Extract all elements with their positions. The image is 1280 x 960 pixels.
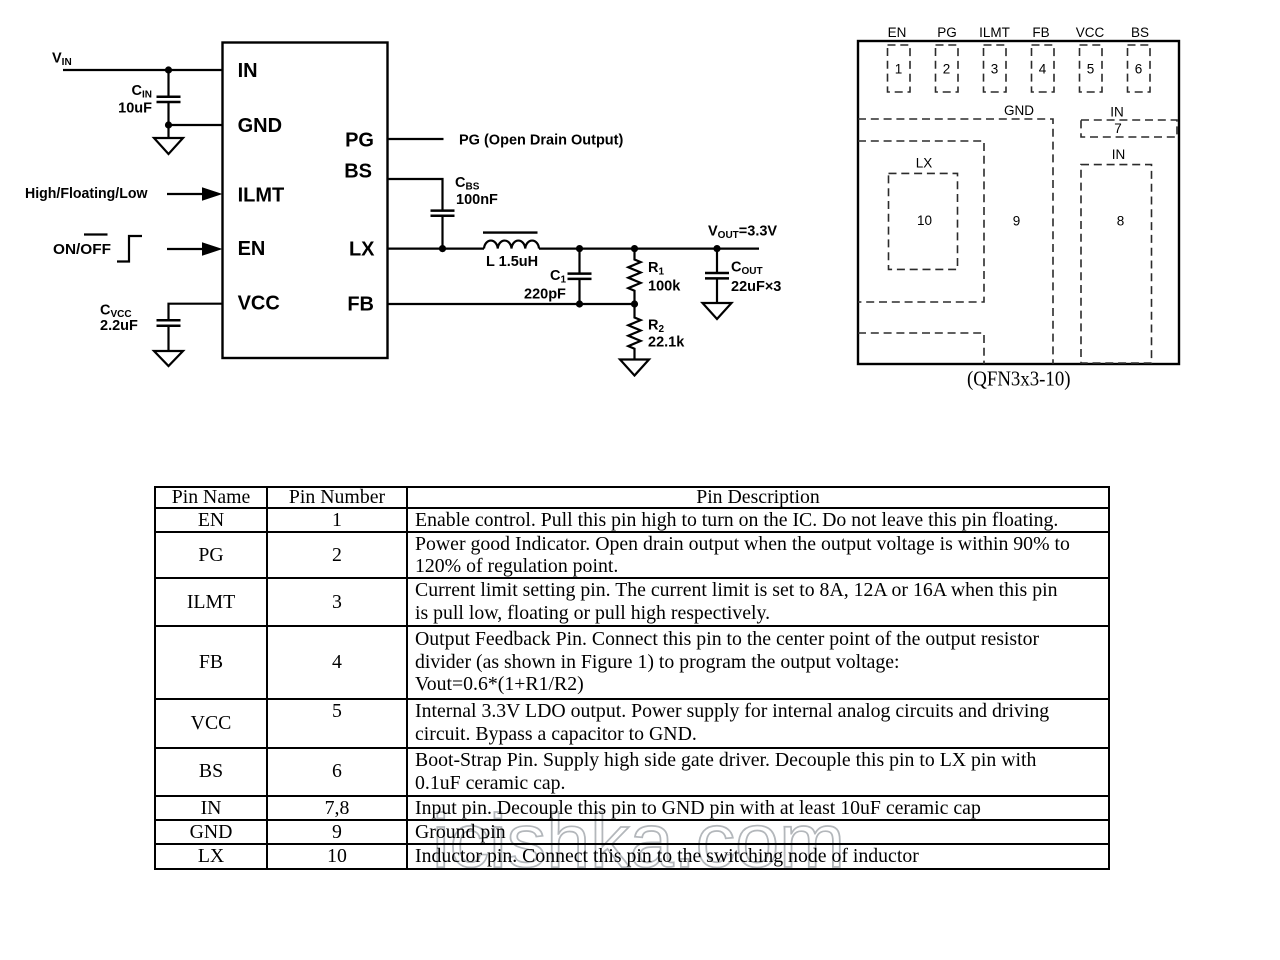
wire ILMT arrow xyxy=(167,187,223,201)
svg-text:8: 8 xyxy=(1117,214,1125,229)
capacitor C1 xyxy=(568,249,592,304)
wire VIN to IN pin xyxy=(63,69,223,71)
svg-text:22.1k: 22.1k xyxy=(648,335,685,351)
svg-text:COUT: COUT xyxy=(731,260,763,278)
QFN pad pin 10 LX xyxy=(889,173,958,269)
svg-text:22uF×3: 22uF×3 xyxy=(731,279,781,295)
resistor R2 xyxy=(628,304,640,360)
svg-text:PG: PG xyxy=(345,130,374,152)
svg-text:High/Floating/Low: High/Floating/Low xyxy=(25,186,148,202)
svg-text:5: 5 xyxy=(1087,62,1095,77)
svg-text:LX: LX xyxy=(916,156,933,171)
svg-text:CIN: CIN xyxy=(132,83,152,101)
wire GND pin xyxy=(169,124,223,126)
svg-text:7: 7 xyxy=(1114,121,1122,136)
node R1 top junction xyxy=(631,245,638,252)
capacitor CBS xyxy=(431,211,455,249)
svg-text:PG (Open Drain Output): PG (Open Drain Output) xyxy=(459,133,623,149)
svg-text:VOUT=3.3V: VOUT=3.3V xyxy=(708,224,777,242)
svg-text:ON/OFF: ON/OFF xyxy=(53,242,111,258)
QFN pad pin 1 xyxy=(888,45,911,92)
node VIN junction xyxy=(165,66,172,73)
node COUT junction xyxy=(713,245,720,252)
svg-text:GND: GND xyxy=(238,115,282,137)
QFN lower notch boundary xyxy=(858,333,984,364)
svg-text:VCC: VCC xyxy=(238,293,280,315)
wire BS to CBS xyxy=(388,179,443,210)
node C1-FB junction xyxy=(576,300,583,307)
capacitor COUT xyxy=(705,249,729,303)
svg-text:3: 3 xyxy=(991,62,999,77)
ground below CVCC xyxy=(154,351,183,366)
svg-text:IN: IN xyxy=(238,60,258,82)
QFN pad pin 2 xyxy=(936,45,959,92)
resistor R1 xyxy=(628,249,640,304)
QFN pad pin 4 xyxy=(1032,45,1055,92)
inductor L1 xyxy=(483,233,539,249)
capacitor CIN xyxy=(157,70,181,125)
QFN package outline xyxy=(858,41,1179,364)
wire PG output xyxy=(388,138,444,140)
svg-text:100k: 100k xyxy=(648,279,681,295)
svg-text:R2: R2 xyxy=(648,318,664,336)
svg-text:2.2uF: 2.2uF xyxy=(100,318,138,334)
QFN LX region boundary xyxy=(858,141,984,302)
svg-text:6: 6 xyxy=(1135,62,1143,77)
svg-text:ILMT: ILMT xyxy=(979,25,1010,40)
node C1 top junction xyxy=(576,245,583,252)
svg-text:10uF: 10uF xyxy=(118,100,152,116)
ON/OFF step waveform symbol xyxy=(117,236,142,262)
svg-text:GND: GND xyxy=(1004,103,1034,118)
svg-text:BS: BS xyxy=(344,160,372,182)
overline over OFF xyxy=(84,233,108,235)
svg-text:R1: R1 xyxy=(648,260,664,278)
node CIN-GND junction xyxy=(165,121,172,128)
wire FB pin xyxy=(388,303,635,305)
svg-text:FB: FB xyxy=(347,293,374,315)
svg-text:EN: EN xyxy=(888,25,907,40)
svg-text:10: 10 xyxy=(917,213,932,228)
svg-text:PG: PG xyxy=(937,25,957,40)
svg-text:1: 1 xyxy=(895,62,903,77)
QFN GND pad pin 9 boundary xyxy=(858,119,1053,364)
svg-text:(QFN3x3-10): (QFN3x3-10) xyxy=(967,367,1071,391)
svg-text:9: 9 xyxy=(1013,214,1021,229)
svg-text:VIN: VIN xyxy=(52,51,72,69)
QFN pad pin 5 xyxy=(1080,45,1103,92)
svg-text:4: 4 xyxy=(1039,62,1047,77)
capacitor CVCC xyxy=(157,304,223,351)
svg-text:IN: IN xyxy=(1112,147,1126,162)
svg-text:220pF: 220pF xyxy=(524,287,566,303)
svg-text:C1: C1 xyxy=(550,268,566,286)
QFN pad pin 3 xyxy=(984,45,1007,92)
svg-text:ILMT: ILMT xyxy=(238,184,285,206)
QFN pad pin 6 xyxy=(1128,45,1151,92)
svg-text:BS: BS xyxy=(1131,25,1149,40)
svg-text:L 1.5uH: L 1.5uH xyxy=(486,254,538,270)
node CBS-LX junction xyxy=(439,245,446,252)
wire VOUT rail xyxy=(539,248,759,250)
ground below COUT xyxy=(703,303,732,319)
svg-text:VCC: VCC xyxy=(1076,25,1105,40)
svg-text:EN: EN xyxy=(238,238,266,260)
node R1-R2-FB junction xyxy=(631,300,638,307)
ground below CIN xyxy=(154,125,183,154)
svg-text:FB: FB xyxy=(1032,25,1049,40)
QFN pad pin 8 xyxy=(1081,165,1152,364)
svg-text:2: 2 xyxy=(943,62,951,77)
wire LX pin xyxy=(388,248,485,250)
op-amp U1 IC body xyxy=(223,43,388,359)
ground below R2 xyxy=(620,360,649,376)
svg-text:IN: IN xyxy=(1110,105,1124,120)
wire EN arrow xyxy=(167,242,223,256)
svg-text:LX: LX xyxy=(349,238,375,260)
svg-text:CBS: CBS xyxy=(455,175,480,193)
QFN pad pin 7 xyxy=(1081,120,1177,137)
svg-text:100nF: 100nF xyxy=(456,192,498,208)
